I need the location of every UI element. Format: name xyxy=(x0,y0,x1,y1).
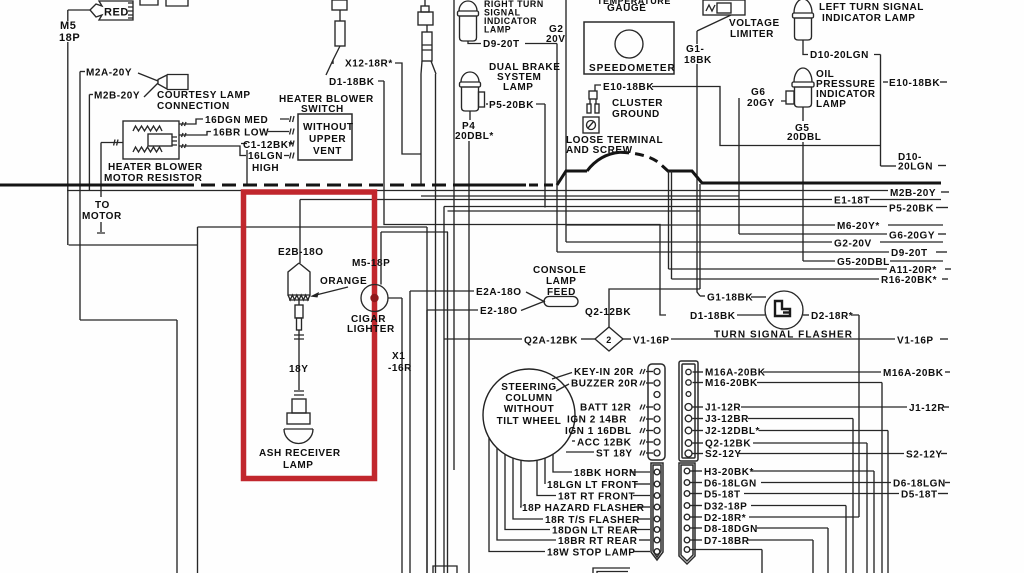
wire Q2-12BK riser xyxy=(585,184,700,327)
svg-text:D8-18DGN: D8-18DGN xyxy=(704,524,758,535)
switch heater blower switch xyxy=(279,94,374,160)
svg-text:D6-18LGN: D6-18LGN xyxy=(893,479,946,490)
svg-text:16BR LOW: 16BR LOW xyxy=(213,128,269,139)
svg-text:R16-20BK*: R16-20BK* xyxy=(881,275,937,286)
wire E2-18O xyxy=(427,301,545,573)
wire S2-12Y right xyxy=(739,450,947,461)
svg-text:D5-18T: D5-18T xyxy=(704,490,741,501)
pin 18BR RT REAR xyxy=(558,536,660,547)
svg-text:M16A-20BK: M16A-20BK xyxy=(883,368,944,379)
svg-text:M2B-20Y: M2B-20Y xyxy=(94,91,140,102)
svg-text:LIGHTER: LIGHTER xyxy=(347,324,395,335)
svg-text:ST 18Y: ST 18Y xyxy=(596,449,633,460)
wire D1-18BK to flasher xyxy=(378,81,666,315)
svg-text:E2-18O: E2-18O xyxy=(480,306,518,317)
svg-text:CONSOLE: CONSOLE xyxy=(533,265,586,276)
label M5 18P xyxy=(59,20,80,44)
svg-text:BUZZER 20R: BUZZER 20R xyxy=(571,379,638,390)
svg-text:H3-20BK*: H3-20BK* xyxy=(704,467,754,478)
pin 18T RT FRONT xyxy=(558,492,660,503)
wire G5 20DBL xyxy=(787,107,821,261)
svg-text:C1-12BK*: C1-12BK* xyxy=(243,140,293,151)
svg-text:FEED: FEED xyxy=(547,287,576,298)
wire D6-18LGN right xyxy=(761,479,950,490)
svg-text:IGN 1 16DBL: IGN 1 16DBL xyxy=(565,426,632,437)
wire Q2A-12BK xyxy=(444,336,595,347)
bus firewall solid left xyxy=(0,184,180,187)
svg-text:D2-18R*: D2-18R* xyxy=(704,513,746,524)
svg-text:INDICATOR LAMP: INDICATOR LAMP xyxy=(822,13,915,24)
pin M16-20BK xyxy=(686,378,758,389)
wire M5 branch to column xyxy=(69,244,198,246)
label D1-18BK flasher xyxy=(690,311,765,322)
wire cable right xyxy=(435,74,437,573)
pin BUZZER 20R xyxy=(571,379,660,390)
svg-text:GAUGE: GAUGE xyxy=(607,3,646,14)
svg-text:20DBL*: 20DBL* xyxy=(455,131,494,142)
highlight red box xyxy=(244,192,375,479)
wire cigar lighter feed xyxy=(381,232,448,285)
label cigar lighter xyxy=(347,314,395,335)
wire D2-18R* lower xyxy=(749,516,859,518)
wire E1-18T xyxy=(300,196,941,207)
wire X1-16R xyxy=(388,298,412,573)
label E2B-18O xyxy=(278,247,324,258)
svg-text:D2-18R*: D2-18R* xyxy=(811,311,853,322)
label M2A-20Y xyxy=(80,68,132,79)
label ash receiver lamp xyxy=(259,448,341,471)
resistor heater blower motor resistor xyxy=(123,121,179,159)
svg-text:D1-18BK: D1-18BK xyxy=(329,77,375,88)
wire resistor feed xyxy=(101,140,123,146)
connector instrument feed cable xyxy=(418,0,436,74)
wire D2-18R* xyxy=(803,311,859,517)
wire 18T RT FRONT leader xyxy=(537,460,556,495)
svg-text:20LGN: 20LGN xyxy=(898,162,933,173)
pin D32-18P xyxy=(684,502,747,513)
pin D8-18DGN xyxy=(684,524,758,535)
wire E2A-18O xyxy=(410,287,545,573)
svg-text:M5: M5 xyxy=(60,20,76,32)
svg-text:LAMP: LAMP xyxy=(503,82,534,93)
wire E10-18BK xyxy=(652,87,880,146)
svg-text:Q2-12BK: Q2-12BK xyxy=(705,439,751,450)
wire D5-18T right xyxy=(744,490,948,501)
svg-text:M2B-20Y: M2B-20Y xyxy=(890,188,936,199)
wire harness drop cigar feed xyxy=(447,232,449,573)
svg-text:E10-18BK: E10-18BK xyxy=(603,82,654,93)
svg-text:D10-20LGN: D10-20LGN xyxy=(810,50,869,61)
svg-text:D7-18BR: D7-18BR xyxy=(704,536,750,547)
label E10-18BK right xyxy=(883,78,947,89)
label heater blower motor resistor xyxy=(104,162,203,184)
connector strip column upper right xyxy=(679,361,698,461)
svg-text:M16-20BK: M16-20BK xyxy=(705,378,758,389)
svg-text:2: 2 xyxy=(606,335,612,345)
wire key-in leader xyxy=(552,373,572,380)
connector strip lower right xyxy=(679,463,695,564)
pin J2-12DBL* xyxy=(685,426,760,437)
svg-text:18W STOP LAMP: 18W STOP LAMP xyxy=(547,548,635,559)
wire accessory feed upper xyxy=(421,195,739,197)
pin D7-18BR xyxy=(684,536,750,547)
wire M2A-20Y xyxy=(79,72,81,321)
wire G1-18BK xyxy=(684,15,731,296)
svg-text:S2-12Y: S2-12Y xyxy=(705,449,742,460)
wire st leader xyxy=(566,451,594,453)
svg-text:KEY-IN 20R: KEY-IN 20R xyxy=(574,367,634,378)
wire D9-20T lamp lead xyxy=(468,39,557,252)
svg-text:18DGN LT REAR: 18DGN LT REAR xyxy=(552,526,638,537)
svg-text:G6-20GY: G6-20GY xyxy=(889,231,935,242)
label G2 20V xyxy=(546,24,565,45)
bus firewall hump xyxy=(587,152,620,171)
connector bulkhead RED xyxy=(90,0,188,20)
svg-text:TILT WHEEL: TILT WHEEL xyxy=(497,416,562,427)
wire 18BR RT REAR leader xyxy=(497,448,556,540)
wire harness left vertical B xyxy=(176,320,178,573)
svg-text:LAMP: LAMP xyxy=(816,99,847,110)
wire 18LGN LT FRONT leader xyxy=(544,458,546,484)
wire C1-12BK* xyxy=(241,140,294,185)
svg-text:IGN 2 14BR: IGN 2 14BR xyxy=(567,415,627,426)
pin Q2-12BK xyxy=(685,439,751,450)
pin BATT 12R xyxy=(580,403,660,414)
pin lower right unused xyxy=(684,547,690,553)
svg-text:LAMP: LAMP xyxy=(283,460,314,471)
svg-text:COLUMN: COLUMN xyxy=(505,393,552,404)
label ORANGE with arrow xyxy=(310,276,367,298)
bus firewall right xyxy=(667,171,941,183)
wire cable left xyxy=(420,74,422,185)
wire G5-20DBL right xyxy=(803,257,943,268)
wire E2B feed xyxy=(299,200,301,264)
svg-text:M16A-20BK: M16A-20BK xyxy=(705,368,766,379)
wire 16LGN HIGH xyxy=(179,144,294,174)
svg-text:P5-20BK: P5-20BK xyxy=(889,204,934,215)
svg-text:VENT: VENT xyxy=(313,146,342,157)
pin J3-12BR xyxy=(685,414,749,425)
svg-text:G6: G6 xyxy=(751,87,765,98)
bus firewall dashed middle xyxy=(180,184,455,187)
screw loose terminal and screw xyxy=(566,117,663,156)
svg-text:D32-18P: D32-18P xyxy=(704,502,747,513)
svg-text:MOTOR RESISTOR: MOTOR RESISTOR xyxy=(104,173,203,184)
splice node 2 diamond xyxy=(595,327,623,351)
svg-text:Q2A-12BK: Q2A-12BK xyxy=(524,336,578,347)
wire D7-18BR right xyxy=(748,540,813,573)
fuse X12 feed xyxy=(326,0,347,75)
svg-text:20GY: 20GY xyxy=(747,98,775,109)
wire D9-20T right xyxy=(557,248,947,259)
connector courtesy lamp connection xyxy=(138,73,188,97)
pin J1-12R xyxy=(685,403,741,414)
svg-text:-16R: -16R xyxy=(388,363,412,374)
connector console lamp feed xyxy=(533,265,586,307)
wire H3-20BK* right xyxy=(751,471,874,573)
svg-text:Q2-12BK: Q2-12BK xyxy=(585,307,631,318)
wire X12-18R* xyxy=(395,63,421,154)
wire 18P HAZARD FLASHER leader xyxy=(520,460,521,507)
svg-text:COURTESY LAMP: COURTESY LAMP xyxy=(157,90,251,101)
svg-text:HIGH: HIGH xyxy=(252,163,279,174)
pin 18LGN LT FRONT xyxy=(547,480,660,491)
bus firewall dashes before rise xyxy=(529,184,557,187)
wire strip bottom feed xyxy=(690,550,762,573)
pin 18W STOP LAMP xyxy=(547,548,660,559)
ground cluster ground xyxy=(587,91,663,120)
svg-text:P5-20BK: P5-20BK xyxy=(489,100,534,111)
svg-text:E2B-18O: E2B-18O xyxy=(278,247,324,258)
lamp socket E2B courtesy xyxy=(288,263,310,300)
wire 18BK HORN leader xyxy=(553,454,572,472)
wire M6-20Y* xyxy=(566,221,943,232)
svg-text:G1-: G1- xyxy=(686,44,704,55)
svg-text:LAMP: LAMP xyxy=(546,276,577,287)
wire courtesy branch xyxy=(80,319,177,321)
svg-text:18R T/S FLASHER: 18R T/S FLASHER xyxy=(545,515,640,526)
wire R16-20BK* xyxy=(672,171,949,286)
svg-text:SPEEDOMETER: SPEEDOMETER xyxy=(589,63,676,74)
cigar lighter xyxy=(361,285,388,312)
svg-text:G2-20V: G2-20V xyxy=(834,239,872,250)
svg-text:M6-20Y*: M6-20Y* xyxy=(837,221,880,232)
svg-text:D5-18T: D5-18T xyxy=(901,490,938,501)
component cut at bottom center xyxy=(593,568,630,573)
pin ACC 12BK xyxy=(577,438,660,449)
wire 16BR LOW xyxy=(179,128,294,139)
svg-text:18BR RT REAR: 18BR RT REAR xyxy=(558,536,638,547)
svg-text:E10-18BK: E10-18BK xyxy=(889,78,940,89)
wire J3-12BR right xyxy=(748,419,853,573)
svg-text:D9-20T: D9-20T xyxy=(891,248,928,259)
lamp ash receiver lamp xyxy=(284,391,313,444)
svg-text:V1-16P: V1-16P xyxy=(633,336,670,347)
svg-text:16DGN MED: 16DGN MED xyxy=(205,115,268,126)
wire A11-20R* xyxy=(669,171,952,276)
wire D10-20LGN xyxy=(803,40,881,166)
lamp right turn signal indicator xyxy=(458,0,544,41)
pin 18P HAZARD FLASHER xyxy=(522,503,660,514)
svg-text:18LGN LT FRONT: 18LGN LT FRONT xyxy=(547,480,638,491)
svg-text:STEERING: STEERING xyxy=(501,382,557,393)
svg-text:UPPER: UPPER xyxy=(309,134,346,145)
svg-text:WITHOUT: WITHOUT xyxy=(303,122,354,133)
svg-text:D1-18BK: D1-18BK xyxy=(690,311,736,322)
svg-text:18Y: 18Y xyxy=(289,364,308,375)
voltage limiter U1 xyxy=(703,0,780,40)
wire buzzer leader xyxy=(556,384,569,391)
label X12-18R* xyxy=(345,59,393,70)
svg-text:20DBL: 20DBL xyxy=(787,132,821,143)
pin D6-18LGN xyxy=(684,479,757,490)
pin 18DGN LT REAR xyxy=(552,526,660,537)
wire G1-18BK to flasher xyxy=(700,293,766,304)
svg-text:WITHOUT: WITHOUT xyxy=(504,404,555,415)
svg-text:ACC 12BK: ACC 12BK xyxy=(577,438,632,449)
lamp left turn signal indicator xyxy=(793,0,924,40)
wire G6 20GY xyxy=(739,87,786,234)
pin S2-12Y xyxy=(685,449,742,460)
pin KEY-IN 20R xyxy=(574,367,660,378)
svg-text:LAMP: LAMP xyxy=(484,25,511,35)
label courtesy lamp connection xyxy=(157,90,251,112)
svg-text:20V: 20V xyxy=(546,34,565,45)
bus firewall rise segment xyxy=(557,171,587,185)
svg-text:BATT 12R: BATT 12R xyxy=(580,403,632,414)
svg-text:G1-18BK: G1-18BK xyxy=(707,293,753,304)
label M5-18P cigar feed xyxy=(352,258,390,269)
pin IGN 1 16DBL xyxy=(565,426,660,437)
svg-text:J3-12BR: J3-12BR xyxy=(705,414,749,425)
svg-text:S2-12Y: S2-12Y xyxy=(906,450,943,461)
svg-text:18T RT FRONT: 18T RT FRONT xyxy=(558,492,635,503)
wire P4 20DBL* xyxy=(455,111,494,573)
lamp dual brake system xyxy=(460,62,561,111)
svg-text:LIMITER: LIMITER xyxy=(730,29,774,40)
svg-text:J1-12R: J1-12R xyxy=(705,403,741,414)
wire M2B-20Y drop xyxy=(88,95,90,191)
connector strip column upper xyxy=(648,364,665,460)
wire harness drop E2B xyxy=(443,207,445,573)
svg-text:LEFT TURN SIGNAL: LEFT TURN SIGNAL xyxy=(819,2,924,13)
pin D5-18T xyxy=(684,490,740,501)
wire 16DGN MED xyxy=(179,115,294,126)
wire acc leader xyxy=(572,440,575,442)
svg-text:RED: RED xyxy=(104,7,129,19)
label M2B-20Y xyxy=(89,91,140,102)
svg-text:MOTOR: MOTOR xyxy=(82,211,122,222)
label 18Y xyxy=(289,364,308,375)
bus firewall hump dashed xyxy=(620,152,668,171)
svg-text:X1: X1 xyxy=(392,351,405,362)
pin 18R T/S FLASHER xyxy=(545,515,660,526)
svg-text:HEATER BLOWER: HEATER BLOWER xyxy=(108,162,203,173)
svg-text:CLUSTER: CLUSTER xyxy=(612,98,663,109)
wire J1-12R right xyxy=(741,403,949,414)
pin H3-20BK* xyxy=(684,467,754,478)
svg-text:VOLTAGE: VOLTAGE xyxy=(729,18,780,29)
svg-text:M2A-20Y: M2A-20Y xyxy=(86,68,132,79)
wire P5-20BK lamp lead xyxy=(486,100,545,208)
wire D32-18P right xyxy=(751,506,846,573)
svg-text:ORANGE: ORANGE xyxy=(320,276,367,287)
svg-text:D9-20T: D9-20T xyxy=(483,39,520,50)
wire 18R T/S FLASHER leader xyxy=(513,458,543,519)
bus firewall rise xyxy=(455,184,526,187)
lamp oil pressure indicator xyxy=(786,68,876,110)
label E10-18BK xyxy=(595,82,654,93)
wire G2-20V right xyxy=(566,239,943,250)
pin D2-18R* xyxy=(684,513,746,524)
svg-text:TURN SIGNAL FLASHER: TURN SIGNAL FLASHER xyxy=(714,330,853,341)
wire P5-20BK right xyxy=(444,204,948,215)
pin ST 18Y xyxy=(596,449,660,460)
wire 18W STOP LAMP leader xyxy=(489,438,545,552)
wire 18DGN LT REAR leader xyxy=(505,454,550,529)
svg-text:X12-18R*: X12-18R* xyxy=(345,59,393,70)
svg-text:18BK HORN: 18BK HORN xyxy=(574,468,637,479)
svg-text:GROUND: GROUND xyxy=(612,109,660,120)
pin unused xyxy=(686,392,691,397)
wire V1-16P xyxy=(623,336,948,347)
wire M16-20BK right xyxy=(757,383,882,573)
svg-text:18P HAZARD FLASHER: 18P HAZARD FLASHER xyxy=(522,503,645,514)
wire feed across E2B xyxy=(198,226,428,228)
wire harness left vertical A xyxy=(197,227,199,573)
wire G6-20GY right xyxy=(739,231,946,242)
steering column without tilt wheel xyxy=(483,369,575,461)
wire to motor xyxy=(82,143,122,234)
wire M16A-20BK right xyxy=(763,368,950,379)
svg-text:CONNECTION: CONNECTION xyxy=(157,101,230,112)
svg-text:E2A-18O: E2A-18O xyxy=(476,287,522,298)
pin unused xyxy=(654,392,660,398)
svg-text:18BK: 18BK xyxy=(684,55,712,66)
svg-text:G5-20DBL: G5-20DBL xyxy=(837,257,890,268)
svg-text:ASH RECEIVER: ASH RECEIVER xyxy=(259,448,341,459)
wire M2B-20Y xyxy=(67,188,949,199)
wire M5 18P xyxy=(68,10,90,245)
svg-text:V1-16P: V1-16P xyxy=(897,336,934,347)
wire Q2-12BK right xyxy=(753,443,867,573)
wire G2-20V vertical xyxy=(565,0,567,242)
bulb holder E2B xyxy=(294,299,304,390)
svg-text:M5-18P: M5-18P xyxy=(352,258,390,269)
svg-text:TO: TO xyxy=(95,200,110,211)
svg-text:E1-18T: E1-18T xyxy=(834,196,870,207)
pin 18BK HORN xyxy=(574,468,660,479)
wire J2-12DBL* right xyxy=(759,431,888,573)
pin M16A-20BK xyxy=(686,368,766,379)
wire D8-18DGN right xyxy=(757,528,828,573)
svg-text:AND SCREW: AND SCREW xyxy=(566,145,633,156)
wire accessory feed lower xyxy=(448,210,701,212)
svg-text:D6-18LGN: D6-18LGN xyxy=(704,479,757,490)
component cut at bottom left xyxy=(433,566,457,573)
wire harness drop A xyxy=(426,227,428,573)
pin IGN 2 14BR xyxy=(567,415,660,426)
svg-text:16LGN: 16LGN xyxy=(248,151,283,162)
gauge speedometer xyxy=(584,0,676,74)
label D10- 20LGN right xyxy=(881,152,947,173)
label D1-18BK xyxy=(329,77,375,88)
svg-text:J1-12R: J1-12R xyxy=(909,403,945,414)
relay turn signal flasher xyxy=(714,291,853,341)
svg-text:18P: 18P xyxy=(59,32,80,44)
connector strip lower left xyxy=(651,463,663,560)
svg-text:J2-12DBL*: J2-12DBL* xyxy=(705,426,760,437)
wire harness main vertical xyxy=(453,0,455,470)
